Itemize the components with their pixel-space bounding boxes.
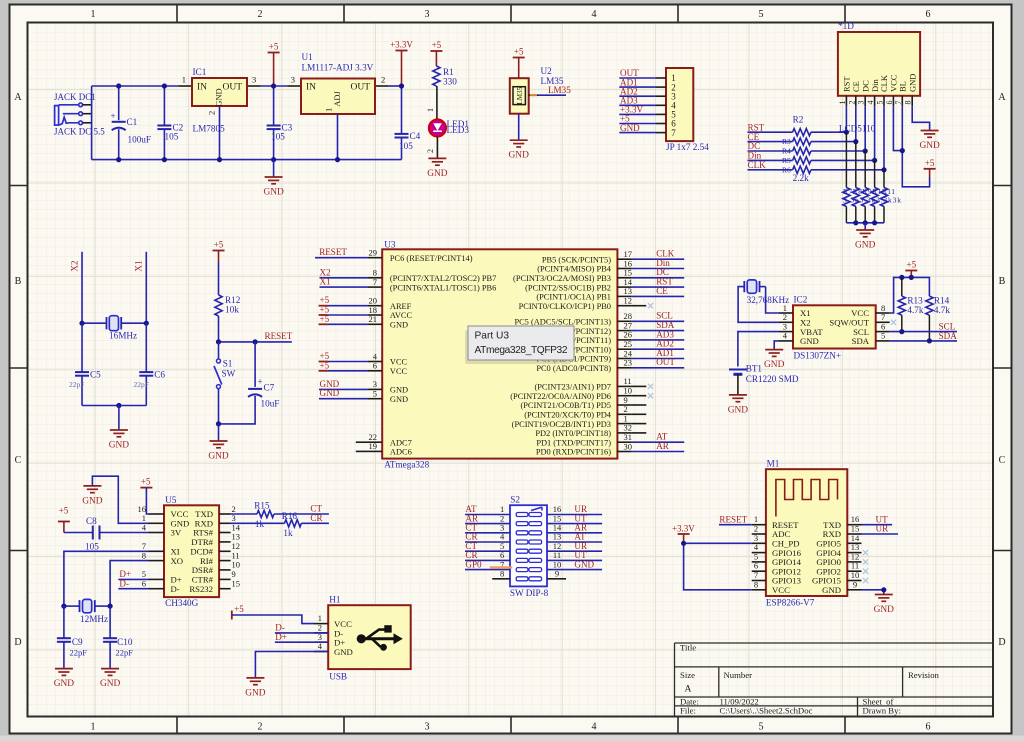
- svg-text:GND: GND: [109, 441, 130, 451]
- wire top rail: [92, 85, 402, 87]
- svg-text:VCC: VCC: [772, 585, 790, 595]
- svg-text:R4: R4: [782, 147, 791, 156]
- junction dot DC: [863, 148, 868, 153]
- svg-text:IN: IN: [197, 83, 207, 93]
- svg-text:4.7k: 4.7k: [907, 305, 923, 315]
- svg-text:GND: GND: [245, 688, 266, 698]
- junction dot SCL: [899, 329, 904, 334]
- U3 pin 9 (PCINT21/OC0B/T1) PD5: [520, 395, 646, 410]
- svg-text:GND: GND: [800, 336, 819, 346]
- svg-text:Size: Size: [680, 670, 695, 680]
- R2 row RST: [748, 122, 847, 135]
- svg-text:AR: AR: [656, 441, 670, 451]
- svg-text:12MHz: 12MHz: [80, 614, 108, 624]
- IC2 pin 2 X2: [779, 312, 811, 327]
- svg-text:1k: 1k: [283, 528, 293, 538]
- capacitor C4: [395, 86, 421, 160]
- svg-text:C9: C9: [72, 637, 83, 647]
- junction dots pullup rail: [899, 275, 904, 280]
- svg-text:2: 2: [847, 101, 856, 105]
- U3 pin 11 (PCINT23/AIN1) PD7: [534, 376, 646, 391]
- U3 pin 18 AVCC: [319, 305, 413, 321]
- junction dot esp gnd: [881, 587, 886, 592]
- U3 pin 14 (PCINT2/SS/OC1B) PB2: [525, 277, 684, 293]
- U3 pin 19 ADC6: [356, 441, 412, 456]
- junction dot S1 bottom: [216, 421, 221, 426]
- switch S1 SW: [214, 342, 236, 424]
- svg-text:(PCINT19/OC2B/INT1) PD3: (PCINT19/OC2B/INT1) PD3: [512, 420, 611, 429]
- junction dot BL/VCC: [900, 148, 905, 153]
- svg-text:GND: GND: [390, 386, 408, 395]
- H1 pin 3 D+: [314, 632, 345, 648]
- diode LED1: [429, 119, 470, 137]
- svg-text:GND: GND: [214, 88, 224, 106]
- IC2 pin 8 VCC: [851, 303, 890, 318]
- ground usb: [246, 677, 264, 679]
- svg-text:PCINT0/CLKO/ICP1) PB0: PCINT0/CLKO/ICP1) PB0: [519, 302, 611, 311]
- capacitor C6 22pF: [134, 323, 166, 405]
- svg-text:RESET: RESET: [719, 514, 747, 524]
- wire LCD pin5 drop: [883, 106, 885, 170]
- U3 pin 12 PCINT0/CLKO/ICP1) PB0: [519, 296, 647, 311]
- net label D+ usb: [275, 632, 328, 642]
- tooltip Part U3: [465, 326, 574, 364]
- svg-text:*1D: *1D: [838, 21, 854, 31]
- svg-text:X2: X2: [70, 260, 80, 272]
- svg-text:4.7k: 4.7k: [934, 305, 950, 315]
- svg-text:IC2: IC2: [794, 295, 808, 305]
- ground below C10: [101, 668, 119, 670]
- svg-text:S1: S1: [223, 359, 233, 369]
- svg-text:105: 105: [165, 132, 179, 142]
- svg-text:7: 7: [373, 277, 377, 287]
- svg-text:D+: D+: [275, 632, 287, 642]
- svg-text:BT1: BT1: [746, 364, 763, 374]
- R2 row CLK: [748, 160, 885, 174]
- svg-text:6: 6: [885, 101, 894, 105]
- ground below C3: [263, 160, 284, 198]
- svg-text:SDA: SDA: [939, 331, 958, 341]
- LCD pin 1 RST: [838, 76, 852, 107]
- svg-text:CR1220 SMD: CR1220 SMD: [746, 374, 799, 384]
- svg-text:GND: GND: [263, 188, 284, 198]
- M1 pin 15 RXD: [823, 524, 862, 540]
- M1 pin 4 GPIO16: [752, 542, 802, 558]
- svg-text:6: 6: [926, 722, 931, 733]
- M1 pin 8 VCC: [752, 579, 790, 595]
- power +5 at U5: [140, 477, 152, 514]
- svg-text:C:\Users\..\Sheet2.SchDoc: C:\Users\..\Sheet2.SchDoc: [720, 706, 813, 716]
- S2 element row 6: [516, 558, 541, 562]
- M1 pin 11 GPIO2: [816, 561, 861, 577]
- U5 pin 8 XO: [142, 550, 183, 565]
- svg-text:AREF: AREF: [390, 302, 412, 311]
- U3 pin 4 VCC: [319, 351, 408, 367]
- ground below U2: [510, 139, 528, 141]
- svg-text:Title: Title: [680, 643, 696, 653]
- svg-text:LED3: LED3: [447, 125, 470, 135]
- svg-text:22pF: 22pF: [134, 380, 149, 389]
- svg-text:C: C: [15, 455, 22, 466]
- H1 pin 4 GND: [314, 641, 353, 657]
- LCD pin 3 DC: [857, 80, 871, 106]
- U3 pin 32 PD2 (INT0/PCINT18): [535, 423, 646, 438]
- svg-text:X1: X1: [134, 260, 144, 271]
- svg-text:LM35: LM35: [516, 86, 524, 104]
- M1 pin 2 ADC: [752, 524, 791, 540]
- S2 element row 1: [516, 513, 541, 517]
- S2 pin 8 wire: [492, 569, 510, 579]
- svg-text:JACK DC 5.5: JACK DC 5.5: [54, 127, 105, 137]
- U5 pin 16 VCC: [138, 504, 189, 519]
- svg-text:B: B: [999, 276, 1006, 287]
- svg-text:CR: CR: [310, 513, 323, 523]
- svg-text:H1: H1: [329, 595, 341, 605]
- svg-text:OUT: OUT: [222, 83, 242, 93]
- net label D- usb: [275, 623, 328, 633]
- U3 pin 25 PC2 (ADC2/PCINT10): [532, 339, 684, 355]
- wire R1 to LED: [426, 86, 437, 119]
- svg-text:+5: +5: [514, 47, 524, 57]
- svg-text:2: 2: [258, 9, 263, 20]
- power +3.3V esp: [672, 523, 752, 590]
- svg-text:GND: GND: [509, 151, 530, 161]
- M1 pin 14 GPIO5: [816, 533, 861, 549]
- crystal Y2 32.768KHz: [742, 280, 790, 305]
- module M1 ESP8266-V7 body: [766, 459, 847, 608]
- U3 pin 20 AREF: [319, 295, 412, 311]
- svg-text:C8: C8: [86, 516, 97, 526]
- U3 pin 6 VCC: [319, 360, 408, 376]
- svg-text:105: 105: [85, 542, 99, 552]
- S2 pin 5 wire: [465, 541, 510, 551]
- svg-text:GND: GND: [334, 647, 353, 657]
- svg-text:+5: +5: [432, 40, 442, 50]
- M1 pin 3 CH_PD: [752, 533, 800, 549]
- wire IC1 GND pin: [219, 106, 221, 160]
- wire bottom rail: [92, 159, 402, 161]
- svg-text:SW DIP-8: SW DIP-8: [510, 588, 549, 598]
- svg-text:ADC7: ADC7: [390, 438, 412, 447]
- svg-text:10k: 10k: [225, 305, 239, 315]
- M1 pin 10 GPIO15: [812, 570, 861, 586]
- JP pin 5 wire / net +3.3V: [619, 105, 676, 120]
- svg-text:(PCINT7/XTAL2/TOSC2) PB7: (PCINT7/XTAL2/TOSC2) PB7: [390, 274, 496, 283]
- svg-text:22pF: 22pF: [70, 648, 88, 658]
- M1 pin 12 GPIO0: [816, 551, 861, 567]
- svg-text:GND: GND: [54, 679, 75, 689]
- capacitor C2: [157, 86, 183, 160]
- wire U2 gnd: [518, 114, 520, 141]
- battery BT1 CR1220: [729, 364, 799, 395]
- svg-text:GND: GND: [728, 405, 749, 415]
- connector JACK DC1: [54, 92, 105, 137]
- svg-text:9: 9: [853, 579, 857, 589]
- resistor R8 body: [852, 142, 859, 223]
- LCD pin 4 Din: [866, 79, 880, 107]
- svg-text:IN: IN: [306, 83, 316, 93]
- connector H1 USB body: [328, 595, 411, 682]
- svg-text:(PCINT6/XTAL1/TOSC1) PB6: (PCINT6/XTAL1/TOSC1) PB6: [390, 283, 496, 292]
- ground esp: [875, 594, 893, 596]
- junction dots C2: [162, 83, 167, 88]
- svg-text:GND: GND: [320, 388, 340, 398]
- svg-text:C5: C5: [90, 370, 101, 380]
- svg-text:(PCINT22/OC0A/AIN0) PD6: (PCINT22/OC0A/AIN0) PD6: [510, 392, 611, 401]
- wire LED to gnd: [426, 137, 437, 159]
- svg-text:7: 7: [894, 101, 903, 105]
- svg-text:330: 330: [443, 77, 457, 87]
- svg-text:A: A: [685, 685, 692, 695]
- junction dot CE: [853, 139, 858, 144]
- svg-text:22pF: 22pF: [69, 380, 84, 389]
- ground below crystal: [109, 406, 130, 451]
- svg-text:2: 2: [426, 149, 435, 153]
- U5 pin 12 DCD#: [190, 541, 240, 556]
- regulator U1 LM1117-ADJ: [291, 52, 386, 114]
- junction dot RST: [844, 130, 849, 135]
- svg-text:Drawn By:: Drawn By:: [863, 706, 901, 716]
- svg-text:GND: GND: [82, 496, 103, 506]
- svg-text:C1: C1: [127, 117, 138, 127]
- svg-text:GND: GND: [764, 360, 785, 370]
- net label D+ U5: [118, 569, 148, 579]
- junction dot esp vcc: [681, 541, 686, 546]
- svg-text:GND: GND: [208, 452, 229, 462]
- resistor R11 body: [880, 170, 887, 223]
- R2 row CE: [748, 132, 856, 146]
- svg-text:JP 1x7 2.54: JP 1x7 2.54: [666, 142, 709, 152]
- resistor R10 body: [871, 160, 878, 222]
- svg-text:PD1 (TXD/PCINT17): PD1 (TXD/PCINT17): [536, 438, 611, 447]
- resistor R15 1k: [231, 501, 329, 530]
- svg-text:ADJ: ADJ: [332, 91, 342, 107]
- U3 pin 3 GND: [319, 379, 408, 395]
- capacitor C8 105: [64, 516, 149, 552]
- U3 pin 29 PC6 (RESET/PCINT14): [315, 247, 473, 263]
- JP pin 4 wire / net AD3: [619, 96, 676, 111]
- svg-text:C6: C6: [154, 370, 165, 380]
- svg-text:R2: R2: [793, 115, 804, 125]
- ground IC2 pin4: [765, 349, 783, 351]
- LCD pin 2 CE: [847, 81, 861, 106]
- U5 pin 10 DSR#: [192, 560, 240, 575]
- crystal Y1 16MHz: [82, 316, 146, 341]
- U3 pin 22 ADC7: [356, 432, 412, 447]
- svg-text:100uF: 100uF: [128, 135, 152, 145]
- svg-text:+5: +5: [59, 506, 69, 516]
- svg-text:D-: D-: [171, 584, 180, 594]
- svg-text:OUT: OUT: [350, 83, 370, 93]
- wire LCD BL drop to +5: [902, 106, 929, 187]
- svg-text:ATmega328_TQFP32: ATmega328_TQFP32: [475, 345, 568, 356]
- IC2 pin 1 X1: [779, 303, 811, 318]
- svg-text:PD2 (INT0/PCINT18): PD2 (INT0/PCINT18): [535, 429, 611, 438]
- power +5 usb: [232, 604, 314, 624]
- U3 pin 21 GND: [319, 314, 408, 330]
- JP pin 7 wire / net GND: [619, 123, 676, 138]
- svg-text:+5: +5: [269, 42, 279, 52]
- wire pullup top rail: [890, 277, 930, 313]
- svg-text:CH340G: CH340G: [165, 598, 199, 608]
- svg-text:(PCINT1/OC1A) PB1: (PCINT1/OC1A) PB1: [536, 293, 611, 302]
- resistor R9 body: [862, 151, 869, 223]
- wire LCD pin1 drop: [845, 106, 847, 132]
- S2 element row 7: [516, 568, 541, 572]
- svg-text:3.3k3.3k3.3k3k: 3.3k3.3k3.3k3k: [843, 196, 901, 205]
- wire X1 vertical: [134, 252, 147, 323]
- svg-text:+3.3V: +3.3V: [672, 523, 695, 533]
- IC2 pin 3 VBAT: [779, 321, 823, 336]
- svg-text:PC5 (ADC5/SCL/PCINT13): PC5 (ADC5/SCL/PCINT13): [514, 318, 611, 327]
- svg-text:3: 3: [857, 101, 866, 105]
- S2 pin 16 wire: [547, 504, 602, 514]
- svg-text:M1: M1: [767, 459, 780, 469]
- svg-text:+5: +5: [925, 158, 935, 168]
- svg-text:1: 1: [838, 101, 847, 105]
- IC2 pin 7 SQW/OUT: [829, 312, 889, 327]
- svg-text:D: D: [998, 637, 1005, 648]
- svg-text:GND: GND: [427, 169, 448, 179]
- switch S2 SW DIP-8 body: [510, 495, 549, 599]
- svg-text:X1: X1: [320, 277, 331, 287]
- M1 pin 16 TXD: [823, 514, 861, 530]
- M1 pin 5 GPIO14: [752, 551, 802, 567]
- svg-text:32,768KHz: 32,768KHz: [747, 295, 790, 305]
- svg-text:5: 5: [881, 331, 885, 341]
- junction dot ADJ: [335, 157, 340, 162]
- U3 pin 17 PB5 (SCK/PCINT5): [542, 249, 684, 265]
- svg-text:GND: GND: [907, 74, 917, 92]
- wire X2 vertical: [70, 252, 83, 323]
- svg-text:21: 21: [369, 314, 378, 324]
- svg-text:OUT: OUT: [656, 357, 675, 367]
- U3 pin 31 PD1 (TXD/PCINT17): [536, 432, 684, 448]
- capacitor C1: [111, 86, 152, 160]
- S2 pin 11 wire: [547, 550, 602, 560]
- resistor R1 330: [433, 66, 457, 87]
- svg-text:5: 5: [876, 101, 885, 105]
- svg-text:RESET: RESET: [319, 247, 347, 257]
- S2 pin 7 wire: [465, 559, 510, 569]
- ground below LED1: [428, 157, 446, 159]
- usb-serial U5 CH340G body: [164, 495, 219, 608]
- resistor R13 4.7k: [898, 277, 924, 331]
- svg-text:5: 5: [759, 722, 764, 733]
- U3 pin 8 (PCINT7/XTAL2/TOSC2) PB7: [320, 267, 497, 283]
- svg-text:R13: R13: [907, 296, 923, 306]
- ground below BT1: [729, 394, 747, 396]
- svg-text:(PCINT2/SS/OC1B) PB2: (PCINT2/SS/OC1B) PB2: [525, 283, 611, 292]
- svg-text:Revision: Revision: [908, 670, 940, 680]
- wire xtal to X2: [738, 287, 779, 323]
- IC2 pin 6 SCL: [853, 321, 890, 336]
- svg-text:C4: C4: [410, 131, 421, 141]
- IC2 pin 4 GND: [779, 331, 819, 346]
- svg-text:CE: CE: [656, 286, 668, 296]
- svg-text:GND: GND: [390, 395, 408, 404]
- S2 pin 15 wire: [547, 513, 602, 523]
- wire esp gnd: [862, 590, 884, 595]
- svg-text:GP0: GP0: [465, 559, 482, 569]
- resistor R12 10k: [215, 262, 241, 316]
- U5 pin 2 TXD: [195, 504, 236, 519]
- S2 pin 6 wire: [465, 550, 510, 560]
- svg-text:8: 8: [904, 101, 913, 105]
- svg-text:CT: CT: [310, 504, 322, 514]
- U3 pin 1 (PCINT19/OC2B/INT1) PD3: [512, 413, 647, 428]
- U3 pin 23 PC0 (ADC0/PCINT8): [536, 357, 684, 373]
- svg-text:A: A: [998, 92, 1006, 103]
- U3 pin 26 PC3 (ADC3/PCINT11): [532, 329, 684, 345]
- svg-text:PC0 (ADC0/PCINT8): PC0 (ADC0/PCINT8): [536, 364, 611, 373]
- svg-text:R5: R5: [782, 156, 791, 165]
- U3 pin 5 GND: [319, 388, 408, 404]
- svg-text:S2: S2: [510, 495, 520, 505]
- junction dot C4: [399, 83, 404, 88]
- R2 row DC: [748, 141, 866, 155]
- wire LCD pin2 drop: [855, 106, 857, 141]
- S2 pin 14 wire: [547, 523, 602, 533]
- svg-text:U3: U3: [384, 240, 396, 250]
- wire IC2 gnd pin4: [774, 341, 779, 350]
- svg-text:GND: GND: [620, 123, 640, 133]
- svg-text:1: 1: [324, 108, 334, 112]
- svg-text:+5: +5: [141, 477, 151, 487]
- junction dots crystal: [79, 321, 84, 326]
- ground below C9: [55, 668, 73, 670]
- svg-text:GND: GND: [919, 141, 940, 151]
- wire UT: [862, 514, 893, 524]
- S2 pin 2 wire: [465, 513, 510, 523]
- svg-text:A: A: [14, 92, 22, 103]
- JP pin 2 wire / net AD1: [619, 77, 675, 92]
- S2 pin 3 wire: [465, 523, 510, 533]
- wire usb gnd: [255, 652, 328, 678]
- U3 pin 2 (PCINT20/XCK/T0) PD4: [524, 404, 646, 419]
- svg-text:4: 4: [592, 9, 597, 20]
- svg-text:DSR#: DSR#: [192, 565, 214, 575]
- highlight wire GP0: [490, 566, 513, 568]
- capacitor C3: [267, 86, 293, 160]
- LCD pin 5 CLK: [876, 74, 890, 106]
- ground pullup bus: [856, 229, 874, 231]
- svg-text:+: +: [258, 377, 263, 387]
- svg-text:6: 6: [926, 9, 931, 20]
- U3 pin 10 (PCINT22/OC0A/AIN0) PD6: [510, 386, 646, 401]
- svg-text:+5: +5: [320, 360, 330, 370]
- svg-text:3: 3: [425, 722, 430, 733]
- M1 pin 1 RESET: [752, 514, 800, 530]
- svg-text:2: 2: [207, 111, 217, 115]
- svg-text:R15: R15: [254, 501, 270, 511]
- sensor U2 LM35: [510, 66, 564, 114]
- svg-text:BL: BL: [898, 81, 908, 92]
- svg-text:R12: R12: [225, 295, 241, 305]
- U5 pin 5 D+: [142, 569, 182, 584]
- mcu U3 ATmega328 body: [382, 240, 617, 470]
- svg-text:JACK DC1: JACK DC1: [54, 92, 96, 102]
- svg-text:Part U3: Part U3: [475, 331, 510, 342]
- svg-text:19: 19: [369, 441, 378, 451]
- svg-text:3: 3: [425, 9, 430, 20]
- svg-text:1: 1: [91, 722, 96, 733]
- svg-text:2: 2: [258, 722, 263, 733]
- svg-text:10: 10: [232, 560, 241, 570]
- svg-text:+: +: [111, 111, 116, 121]
- ground into U5 pin1: [82, 476, 148, 523]
- svg-text:SCL: SCL: [939, 321, 956, 331]
